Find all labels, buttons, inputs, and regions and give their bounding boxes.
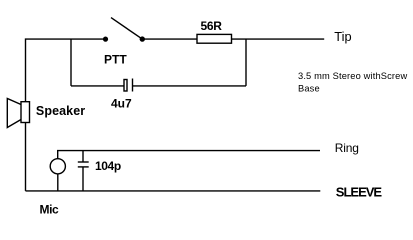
svg-text:Mic: Mic — [40, 203, 60, 217]
switch PTT left contact node — [103, 37, 108, 42]
microphone M1 body — [50, 159, 65, 174]
resistor 56R body — [197, 34, 232, 43]
capacitor C1 4u7 left plate — [124, 80, 127, 92]
speaker LS1 cone — [7, 99, 21, 128]
svg-text:PTT: PTT — [104, 52, 127, 66]
svg-text:3.5 mm Stereo withScrew: 3.5 mm Stereo withScrew — [298, 71, 408, 81]
svg-text:SLEEVE: SLEEVE — [336, 184, 383, 199]
capacitor C1 4u7 right plate — [132, 79, 134, 92]
wire: branch vertical right of 4u7 (node after resistor) — [245, 39, 247, 86]
svg-text:Base: Base — [298, 83, 320, 93]
svg-text:56R: 56R — [201, 19, 223, 33]
capacitor C2 104p top plate — [78, 161, 89, 163]
svg-text:Ring: Ring — [335, 141, 359, 155]
svg-text:Tip: Tip — [334, 29, 351, 44]
speaker LS1 box — [21, 102, 30, 123]
capacitor C2 104p bottom plate — [78, 166, 89, 168]
wire: 4u7 branch right segment — [133, 85, 247, 87]
wire: mic to sleeve rail — [57, 174, 59, 191]
wire: Ring rail — [58, 151, 320, 159]
wire: 104p branch top — [82, 151, 84, 162]
switch PTT right contact node — [140, 36, 145, 41]
svg-text:104p: 104p — [95, 159, 121, 173]
wire: 104p branch bottom — [82, 167, 84, 191]
wire: top rail from resistor to Tip end — [232, 38, 325, 40]
wire: 4u7 branch left segment — [71, 85, 124, 87]
svg-text:Speaker: Speaker — [36, 104, 85, 118]
wire: top rail from switch to resistor — [144, 38, 197, 40]
svg-text:4u7: 4u7 — [111, 96, 132, 110]
switch PTT lever — [111, 18, 142, 39]
wire: branch vertical left of 4u7 — [70, 39, 72, 86]
wire: left rail below speaker — [25, 123, 27, 191]
wire: bottom SLEEVE rail — [26, 190, 321, 192]
wire: top Tip rail left segment — [26, 39, 104, 102]
